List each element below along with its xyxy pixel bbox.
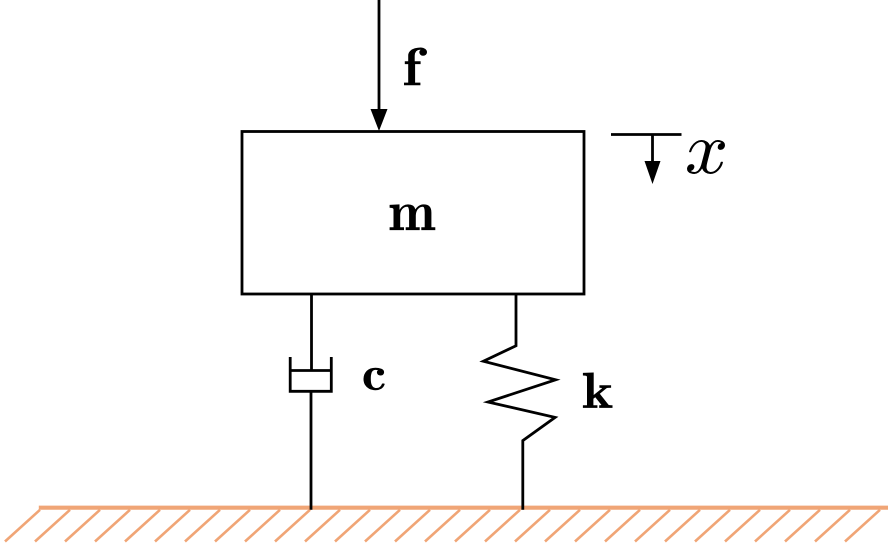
damper c piston plate: [290, 369, 331, 372]
label x: [687, 140, 725, 174]
ground hatching: [5, 510, 880, 542]
wire x arrow stem: [651, 135, 654, 166]
label k: [583, 373, 613, 408]
wire x reference line: [611, 133, 682, 136]
ground line: [39, 506, 888, 510]
label f: [404, 48, 427, 86]
label c: [364, 368, 385, 391]
label m: [390, 204, 436, 230]
damper c cylinder: [290, 357, 331, 391]
arrowhead force f: [371, 109, 388, 131]
wire damper bottom rod: [310, 391, 313, 509]
arrowhead x: [645, 161, 661, 184]
wire force line f: [378, 0, 381, 113]
mass m rectangle: [242, 132, 584, 295]
spring k zigzag: [483, 294, 555, 510]
wire damper top rod: [310, 294, 313, 371]
